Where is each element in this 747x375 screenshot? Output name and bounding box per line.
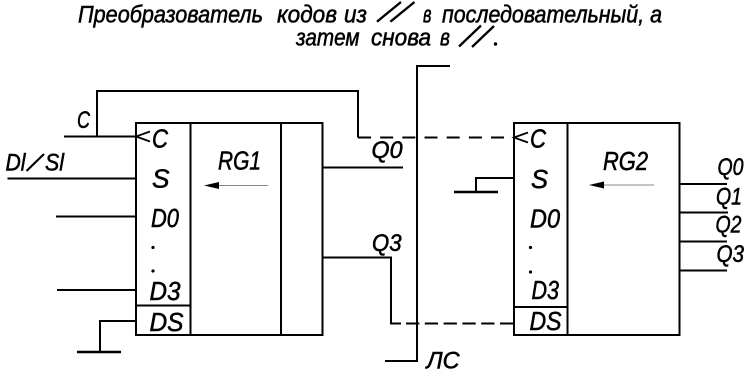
RG2 shift direction arrow [589,182,654,189]
svg-text:ЛС: ЛС [425,348,461,375]
svg-text:S: S [531,164,549,194]
svg-text:S: S [152,164,170,194]
svg-text:D3: D3 [150,276,181,306]
wire RG2 output Q1 [680,212,729,214]
svg-text:D0: D0 [530,204,560,234]
svg-text:Q1: Q1 [716,184,742,211]
wire clock input C to RG1 [64,136,136,138]
wire D3 input [57,289,136,291]
svg-text:Q3: Q3 [372,230,402,257]
wire clock feedback from RG1 top [97,91,358,138]
svg-text:Q3: Q3 [717,241,745,268]
ground bar at RG1 DS [77,351,121,354]
wire D0 input [56,216,136,218]
svg-text:RG1: RG1 [218,146,261,176]
svg-text:Преобразователь: Преобразователь [78,2,263,29]
svg-text:C: C [152,124,168,154]
register RG1 body [136,123,323,335]
wire RG1 output Q0 [323,167,404,169]
RG2 ellipsis dots [529,246,532,249]
dashed serial data wire through line to RG2 DS [406,323,514,325]
svg-text:RG2: RG2 [603,146,648,176]
svg-text:затем: затем [295,25,360,52]
RG2 dynamic clock input marker [514,133,528,143]
svg-text:в: в [440,25,450,52]
svg-text:Q0: Q0 [718,154,745,181]
wire S input [8,178,137,180]
communication line LS [385,65,450,361]
title line 2 [295,25,497,52]
title line 1 [78,2,662,29]
dashed clock wire through line to RG2 C [358,137,514,139]
svg-text:C: C [530,124,546,154]
register RG2 body [514,123,680,335]
svg-text:Q2: Q2 [716,212,742,239]
svg-text:D3: D3 [532,275,560,305]
svg-text:DS: DS [530,306,563,336]
wire DS input [100,321,136,352]
wire RG2 output Q0 [680,183,728,185]
svg-text:Q0: Q0 [372,137,404,164]
node label Dl/Sl [6,150,65,177]
wire RG2 output Q3 [680,270,728,272]
RG1 ellipsis dots [151,246,154,249]
svg-text:C: C [77,107,90,134]
svg-text:снова: снова [371,25,431,52]
RG1 shift direction arrow [204,182,268,189]
svg-text:DS: DS [150,307,185,337]
svg-text:последовательный, а: последовательный, а [442,2,662,29]
svg-text:Dl: Dl [6,150,27,177]
wire RG1 output Q3 serial [323,258,402,324]
svg-text:D0: D0 [151,203,179,233]
svg-text:Sl: Sl [45,150,65,177]
logic level symbol at RG2 S input [454,178,514,192]
RG1 dynamic clock input marker [136,132,150,142]
wire RG2 output Q2 [680,241,728,243]
